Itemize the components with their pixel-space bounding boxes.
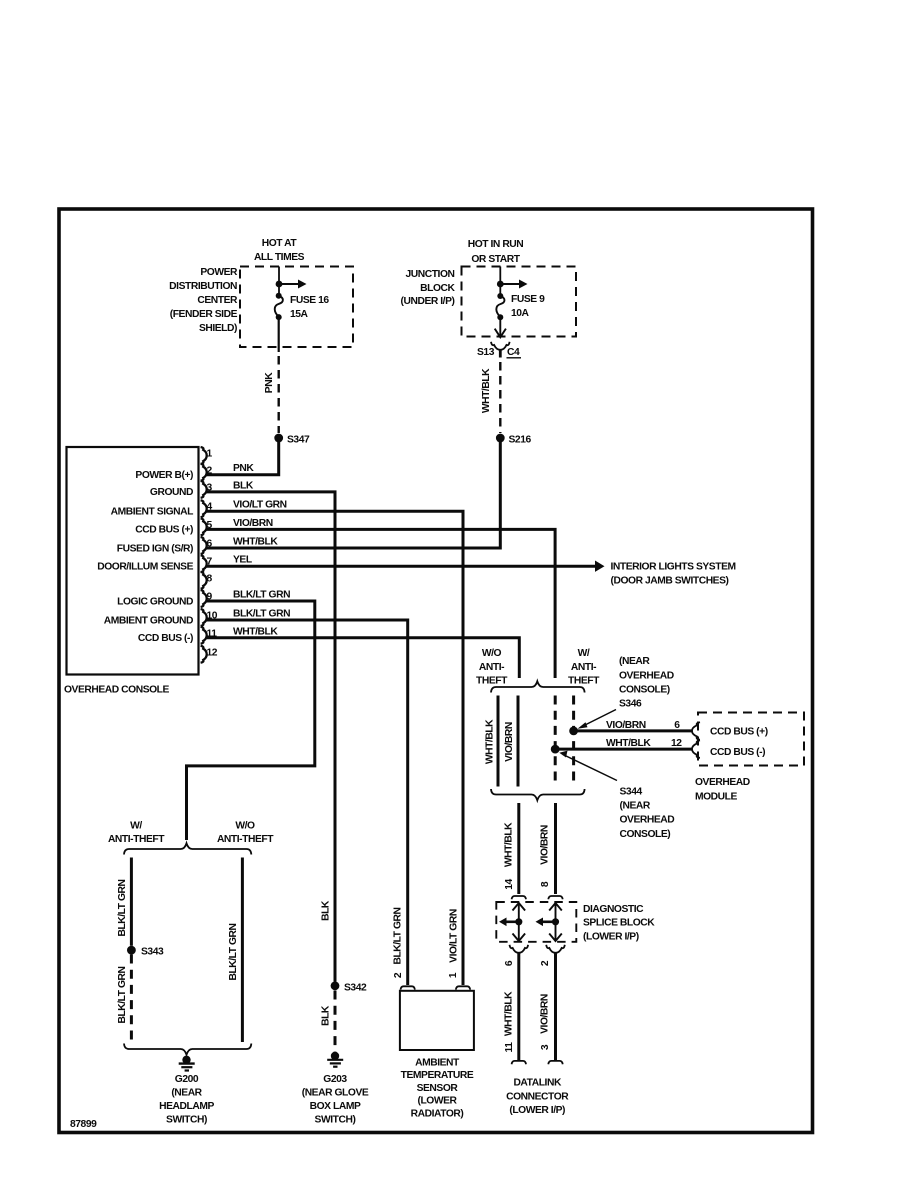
svg-text:JUNCTION: JUNCTION (405, 269, 454, 280)
pin 5 CCD BUS (+) (135, 518, 272, 536)
pin 9 LOGIC GROUND (117, 590, 290, 608)
wire PNK (dashed) fuse 16 to S347 (278, 356, 280, 433)
svg-text:BLK/LT GRN: BLK/LT GRN (228, 923, 239, 980)
wire WHT/BLK S216 to console pin 6 (206, 438, 501, 548)
arrow: junction block feed continues (500, 280, 527, 289)
svg-text:(LOWER I/P): (LOWER I/P) (583, 931, 639, 942)
svg-text:CCD BUS (-): CCD BUS (-) (710, 747, 765, 758)
brace: CCD bus alternatives top (491, 681, 585, 692)
svg-text:DIAGNOSTIC: DIAGNOSTIC (583, 904, 644, 915)
svg-text:S344: S344 (620, 787, 643, 798)
svg-text:6: 6 (674, 720, 680, 731)
wire: fuse 9 output (499, 317, 501, 336)
svg-text:WHT/BLK: WHT/BLK (606, 738, 651, 749)
svg-text:OVERHEAD: OVERHEAD (619, 670, 674, 681)
svg-text:2: 2 (540, 960, 551, 966)
svg-text:W/O: W/O (482, 648, 502, 659)
power distribution center (fender side shield) (169, 267, 353, 348)
svg-text:AMBIENT SIGNAL: AMBIENT SIGNAL (111, 507, 194, 518)
svg-text:BLK/LT GRN: BLK/LT GRN (233, 609, 290, 620)
svg-text:C4: C4 (507, 347, 520, 358)
pin 1 (201, 447, 213, 464)
pin 2 (sensor) (393, 972, 415, 989)
svg-text:(NEAR: (NEAR (620, 800, 651, 811)
wire WHT/BLK w/o anti-theft (497, 696, 500, 787)
wire VIO/LT GRN pin 4 to ambient temp sensor pin 1 (206, 511, 463, 985)
svg-text:ALL TIMES: ALL TIMES (254, 252, 305, 263)
splice S344 (near overhead console) (551, 745, 674, 840)
svg-text:PNK: PNK (264, 372, 275, 393)
svg-text:VIO/BRN: VIO/BRN (233, 518, 273, 529)
svg-text:WHT/BLK: WHT/BLK (233, 537, 278, 548)
node: fuse 9 feed junction (497, 281, 504, 288)
svg-text:S216: S216 (509, 435, 532, 446)
splice S346 (near overhead console) (569, 656, 674, 735)
svg-text:VIO/LT GRN: VIO/LT GRN (233, 500, 287, 511)
svg-text:THEFT: THEFT (476, 676, 508, 687)
svg-text:VIO/BRN: VIO/BRN (540, 994, 551, 1034)
splice S342 (331, 981, 367, 993)
svg-text:YEL: YEL (233, 555, 252, 566)
wire BLK (dashed) S342 to G203 (334, 991, 337, 1052)
wire BLK/LT GRN pin 9 to G200 brace (187, 601, 315, 840)
svg-text:SWITCH): SWITCH) (166, 1115, 207, 1126)
svg-text:VIO/BRN: VIO/BRN (504, 722, 515, 762)
svg-text:MODULE: MODULE (695, 791, 737, 802)
wire VIO/BRN w/o anti-theft (517, 696, 520, 787)
wire VIO/BRN pin 5 to CCD alternatives brace (206, 529, 555, 678)
wire VIO/BRN w/ anti-theft (dashed) (572, 696, 575, 787)
svg-text:S13: S13 (477, 347, 495, 358)
svg-text:BLK: BLK (321, 1005, 332, 1026)
svg-text:POWER B(+): POWER B(+) (135, 470, 193, 481)
svg-text:BLK/LT GRN: BLK/LT GRN (117, 879, 128, 936)
svg-text:8: 8 (207, 573, 213, 584)
svg-text:AMBIENT: AMBIENT (415, 1058, 460, 1069)
svg-text:WHT/BLK: WHT/BLK (233, 626, 278, 637)
svg-text:3: 3 (540, 1044, 551, 1050)
svg-text:1: 1 (207, 449, 213, 460)
svg-text:WHT/BLK: WHT/BLK (504, 991, 515, 1036)
wire BLK/LT GRN w/ anti-theft to S343 (130, 858, 133, 946)
svg-text:FUSE 9: FUSE 9 (511, 294, 545, 305)
svg-text:THEFT: THEFT (568, 676, 600, 687)
label W/O ANTI-THEFT (CCD bus) (476, 648, 508, 687)
svg-text:BLK: BLK (233, 480, 254, 491)
svg-text:W/: W/ (578, 648, 590, 659)
svg-text:12: 12 (671, 738, 682, 749)
svg-text:OR START: OR START (471, 254, 520, 265)
svg-text:6: 6 (207, 539, 213, 550)
ambient temperature sensor (lower radiator) (400, 991, 474, 1120)
brace: ground alternatives top (124, 843, 251, 854)
svg-text:(UNDER I/P): (UNDER I/P) (401, 296, 455, 307)
svg-text:ANTI-THEFT: ANTI-THEFT (108, 834, 165, 845)
svg-text:S343: S343 (141, 947, 164, 958)
svg-text:ANTI-: ANTI- (571, 662, 597, 673)
svg-text:(NEAR: (NEAR (619, 656, 650, 667)
svg-text:WHT/BLK: WHT/BLK (485, 719, 496, 764)
bus label HOT AT ALL TIMES (254, 238, 305, 263)
svg-text:87899: 87899 (70, 1119, 97, 1130)
pin 1 (sensor) (448, 972, 470, 989)
splice bus VIO/BRN inside block (536, 903, 562, 941)
svg-text:W/: W/ (130, 821, 142, 832)
svg-text:11: 11 (504, 1042, 515, 1053)
wire WHT/BLK splice block pin 6 to datalink pin 11 (504, 945, 529, 1064)
svg-text:(LOWER: (LOWER (417, 1096, 457, 1107)
pin 2 POWER B(+) (135, 463, 254, 481)
wire YEL pin 7 to interior lights arrow (206, 565, 597, 568)
svg-text:TEMPERATURE: TEMPERATURE (401, 1070, 474, 1081)
wire: fuse 16 output to box edge (278, 317, 280, 352)
label W/ ANTI-THEFT (ground) (108, 821, 165, 846)
pin 11 CCD BUS (-) (138, 626, 278, 644)
svg-text:S347: S347 (287, 435, 310, 446)
svg-text:LOGIC GROUND: LOGIC GROUND (117, 596, 193, 607)
svg-text:FUSE 16: FUSE 16 (290, 295, 329, 306)
wire: hot feed into fuse 16 (278, 267, 280, 296)
svg-text:BLK/LT GRN: BLK/LT GRN (233, 590, 290, 601)
pin 10 AMBIENT GROUND (104, 609, 290, 627)
svg-text:(LOWER I/P): (LOWER I/P) (509, 1105, 565, 1116)
arrow: to interior lights system (595, 561, 736, 587)
brace: ground alternatives bottom (124, 1044, 251, 1055)
wire BLK/LT GRN pin 10 to ambient temp sensor pin 2 (206, 620, 408, 985)
svg-text:S346: S346 (619, 698, 642, 709)
label W/ ANTI-THEFT (CCD bus) (568, 648, 600, 687)
svg-text:CONSOLE): CONSOLE) (620, 829, 671, 840)
pin 3 GROUND (150, 480, 254, 498)
wire WHT/BLK w/ anti-theft (dashed) (554, 696, 557, 787)
svg-text:2: 2 (393, 972, 404, 978)
svg-text:BLK: BLK (321, 900, 332, 921)
node: fuse 16 feed junction (276, 281, 283, 288)
brace: CCD bus alternatives bottom (491, 789, 585, 800)
fuse F16 15A (275, 293, 330, 320)
ground G203 (near glove box lamp switch) (302, 1052, 369, 1126)
svg-text:(FENDER SIDE: (FENDER SIDE (170, 309, 238, 320)
svg-text:VIO/BRN: VIO/BRN (606, 720, 646, 731)
svg-text:GROUND: GROUND (150, 487, 193, 498)
svg-text:BLK/LT GRN: BLK/LT GRN (393, 907, 404, 964)
svg-text:G203: G203 (323, 1074, 347, 1085)
svg-text:W/O: W/O (235, 821, 255, 832)
arrow: feed continues right (279, 280, 307, 289)
svg-text:S342: S342 (344, 982, 367, 993)
svg-text:SWITCH): SWITCH) (315, 1115, 356, 1126)
junction block (under I/P) (401, 267, 576, 337)
svg-text:1: 1 (448, 972, 459, 978)
svg-text:POWER: POWER (200, 267, 238, 278)
wire WHT/BLK pin 11 to CCD alternatives brace (206, 638, 520, 678)
pin 6 FUSED IGN (S/R) (117, 537, 279, 555)
fuse F9 10A (496, 293, 545, 320)
wire WHT/BLK to diagnostic splice block pin 14 (504, 803, 527, 899)
wire VIO/BRN splice block pin 2 to datalink pin 3 (540, 945, 565, 1064)
wire WHT/BLK (dashed) C4 to S216 (499, 362, 501, 433)
svg-text:PNK: PNK (233, 463, 254, 474)
svg-text:(DOOR JAMB SWITCHES): (DOOR JAMB SWITCHES) (611, 575, 729, 586)
svg-text:DISTRIBUTION: DISTRIBUTION (169, 281, 237, 292)
pin 4 AMBIENT SIGNAL (111, 500, 287, 518)
svg-text:FUSED IGN (S/R): FUSED IGN (S/R) (117, 543, 193, 554)
pin 8 (201, 572, 213, 589)
splice bus WHT/BLK inside block (499, 903, 525, 941)
connector C4 / splice S13 (477, 342, 521, 358)
svg-text:CCD BUS (-): CCD BUS (-) (138, 633, 193, 644)
svg-text:SHIELD): SHIELD) (199, 323, 237, 334)
svg-text:HOT AT: HOT AT (262, 238, 298, 249)
svg-text:DOOR/ILLUM SENSE: DOOR/ILLUM SENSE (97, 562, 193, 573)
svg-text:SENSOR: SENSOR (417, 1083, 459, 1094)
svg-text:CONNECTOR: CONNECTOR (506, 1091, 569, 1102)
splice S347 (274, 434, 310, 446)
svg-text:BLOCK: BLOCK (420, 283, 455, 294)
svg-text:14: 14 (504, 879, 515, 890)
svg-text:CCD BUS (+): CCD BUS (+) (135, 525, 193, 536)
svg-text:OVERHEAD: OVERHEAD (695, 777, 750, 788)
svg-text:OVERHEAD CONSOLE: OVERHEAD CONSOLE (64, 685, 170, 696)
pin 7 DOOR/ILLUM SENSE (97, 555, 252, 573)
svg-text:15A: 15A (290, 309, 309, 320)
wire VIO/BRN to diagnostic splice block pin 8 (540, 803, 563, 899)
ground G200 (near headlamp switch) (159, 1056, 214, 1126)
svg-text:ANTI-: ANTI- (479, 662, 505, 673)
bus label HOT IN RUN OR START (468, 239, 524, 265)
svg-text:G200: G200 (175, 1074, 199, 1085)
wire WHT/BLK S344 to overhead module pin 12 (555, 738, 700, 758)
svg-text:BOX LAMP: BOX LAMP (310, 1101, 361, 1112)
svg-text:BLK/LT GRN: BLK/LT GRN (117, 966, 128, 1023)
svg-text:WHT/BLK: WHT/BLK (504, 822, 515, 867)
label W/O ANTI-THEFT (ground) (217, 821, 274, 846)
wire BLK pin 3 to S342 (206, 492, 335, 982)
diagnostic splice block (lower I/P) (496, 902, 655, 942)
svg-text:INTERIOR LIGHTS SYSTEM: INTERIOR LIGHTS SYSTEM (611, 562, 736, 573)
wire BLK/LT GRN w/o anti-theft (241, 858, 244, 1043)
pin 12 (201, 646, 218, 663)
svg-text:(NEAR GLOVE: (NEAR GLOVE (302, 1088, 369, 1099)
wire: hot feed into fuse 9 (499, 267, 501, 296)
svg-text:RADIATOR): RADIATOR) (411, 1108, 464, 1119)
svg-text:HOT IN RUN: HOT IN RUN (468, 239, 524, 250)
svg-text:VIO/BRN: VIO/BRN (540, 825, 551, 865)
wire BLK/LT GRN (dashed) S343 to ground brace (130, 955, 133, 1043)
svg-text:OVERHEAD: OVERHEAD (620, 815, 675, 826)
wire PNK S347 to console pin 2 (206, 438, 279, 475)
svg-text:12: 12 (207, 647, 218, 658)
splice S343 (127, 946, 164, 958)
svg-text:DATALINK: DATALINK (513, 1078, 562, 1089)
svg-text:2: 2 (207, 465, 213, 476)
overhead module (695, 713, 804, 803)
svg-text:6: 6 (504, 960, 515, 966)
svg-text:WHT/BLK: WHT/BLK (481, 368, 492, 413)
svg-text:SPLICE BLOCK: SPLICE BLOCK (583, 918, 655, 929)
svg-text:AMBIENT GROUND: AMBIENT GROUND (104, 615, 193, 626)
svg-text:HEADLAMP: HEADLAMP (159, 1101, 214, 1112)
svg-text:10A: 10A (511, 308, 530, 319)
svg-text:8: 8 (540, 881, 551, 887)
splice S216 (496, 434, 532, 446)
svg-text:VIO/LT GRN: VIO/LT GRN (449, 909, 460, 963)
svg-text:CCD BUS (+): CCD BUS (+) (710, 727, 768, 738)
svg-text:CONSOLE): CONSOLE) (619, 685, 670, 696)
svg-text:(NEAR: (NEAR (171, 1088, 202, 1099)
datalink connector (lower I/P) (506, 1078, 569, 1117)
overhead console U1 (64, 447, 199, 696)
svg-text:ANTI-THEFT: ANTI-THEFT (217, 834, 274, 845)
arrow: fuse 9 output into C4 (495, 329, 506, 338)
svg-text:CENTER: CENTER (197, 295, 238, 306)
wire VIO/BRN S346 to overhead module pin 6 (574, 720, 700, 740)
